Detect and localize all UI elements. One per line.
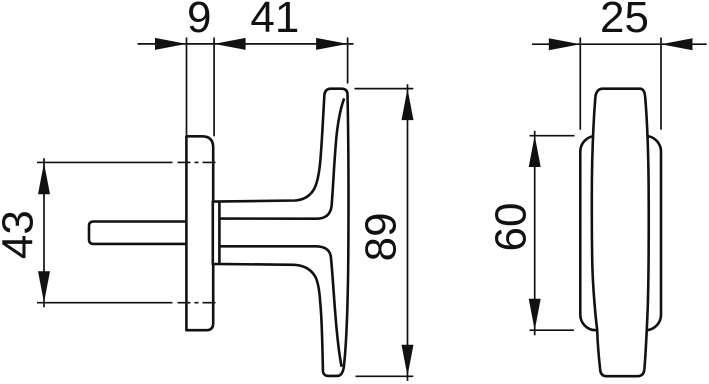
- centerline hole top (extension of 43 dim): [37, 161, 173, 163]
- extension line top: [355, 88, 414, 90]
- svg-text:60: 60: [487, 203, 536, 252]
- plate P1 (rosette, front view): [580, 136, 661, 330]
- svg-text:89: 89: [357, 212, 406, 261]
- grip (front view): [592, 89, 649, 377]
- dimension 25: [532, 38, 707, 130]
- arrow up at 162.4: [38, 163, 50, 195]
- spindle S1 (square shaft, side view): [89, 222, 190, 244]
- handle grip + neck outline (side view): [213, 89, 349, 376]
- neck inner contour lower: [219, 246, 341, 366]
- neck inner contour upper: [219, 98, 344, 218]
- arrow left at 214.1: [214, 38, 246, 50]
- extension line at x=214.1: [213, 38, 215, 137]
- arrow up at 135: [529, 136, 541, 168]
- arrow right at 347.6: [316, 38, 348, 50]
- arrow right at 580.3: [549, 38, 581, 50]
- arrow up at 88.6: [402, 89, 414, 121]
- dimension 89: [355, 84, 414, 381]
- svg-text:43: 43: [0, 210, 42, 259]
- arrow down at 376.3: [402, 345, 414, 377]
- arrow down at 303: [38, 271, 50, 303]
- extension line bottom: [356, 375, 414, 377]
- extension line at x=347.6: [347, 38, 349, 84]
- extension line at x=661: [660, 38, 662, 130]
- centerline hole bottom (extension of 43 dim): [37, 302, 173, 304]
- extension line at x=580.3: [579, 38, 581, 130]
- arrow down at 330.4: [529, 299, 541, 331]
- arrow left at 661: [661, 38, 693, 50]
- extension line bottom: [530, 329, 574, 331]
- svg-text:25: 25: [600, 0, 649, 42]
- dimension 60: [530, 131, 575, 335]
- front view: [580, 89, 661, 377]
- svg-text:41: 41: [250, 0, 299, 42]
- extension line at x=186.5: [186, 38, 188, 137]
- dimension 43: [43, 158, 45, 307]
- arrow right at 186.5: [155, 38, 187, 50]
- collar line (neck ring): [218, 202, 221, 263]
- dimension 9/41 line: [138, 38, 354, 137]
- extension line top: [530, 135, 575, 137]
- plate P1 (rosette, side view): [186, 136, 213, 330]
- svg-text:9: 9: [187, 0, 211, 42]
